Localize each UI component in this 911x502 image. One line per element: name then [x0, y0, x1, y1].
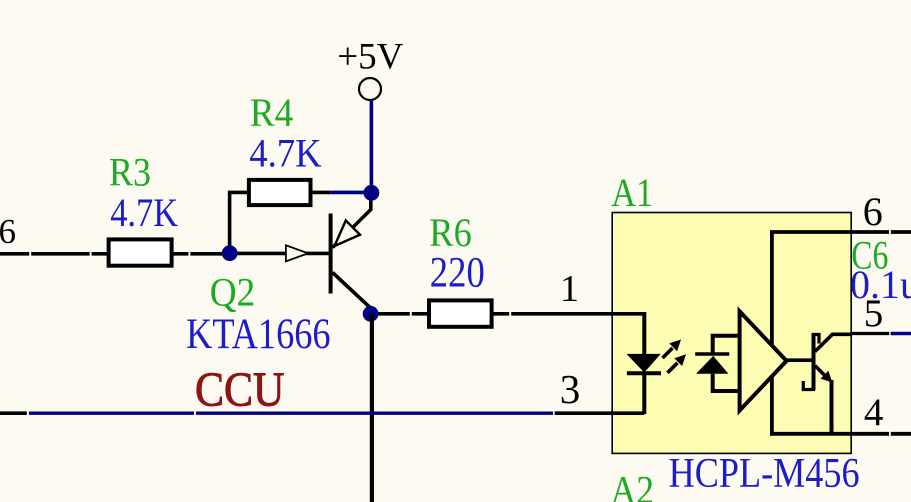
Vcc riser (pin 6) — [772, 232, 889, 345]
wire collector node down (crosses CCU wire) — [370, 314, 374, 502]
svg-text:R4: R4 — [250, 90, 293, 135]
base bar bottom hook — [803, 381, 813, 390]
svg-text:220: 220 — [430, 249, 485, 296]
svg-text:CCU: CCU — [195, 362, 285, 417]
emitter down to rail — [830, 380, 834, 434]
output transistor collector — [815, 334, 851, 351]
wire base of Q2 — [231, 252, 330, 256]
output transistor emitter with arrow — [815, 366, 826, 377]
photodiode bottom stub — [713, 374, 742, 391]
wire CCU left stub (black) — [0, 411, 27, 415]
svg-text:6: 6 — [0, 212, 16, 251]
light arrow 1 — [663, 348, 673, 358]
svg-text:1: 1 — [560, 268, 579, 310]
transistor Q2 base bar — [329, 214, 333, 294]
pin 5 wire (collector out) — [851, 332, 889, 335]
svg-text:A2: A2 — [611, 468, 655, 502]
LED cathode to pin3 — [642, 373, 646, 414]
amplifier triangle — [740, 311, 787, 410]
junction dot collector/R6 — [363, 306, 379, 322]
svg-text:4.7K: 4.7K — [249, 130, 322, 175]
svg-text:+5V: +5V — [337, 36, 403, 77]
junction dot R3/R4/base — [222, 245, 238, 261]
LED cathode bar — [627, 371, 661, 375]
svg-text:KTA1666: KTA1666 — [186, 311, 331, 358]
wire amp output to base bar — [787, 358, 813, 362]
svg-text:Q2: Q2 — [210, 270, 256, 315]
wire R6 to pin 1 — [492, 312, 510, 316]
pin 6 wire outside — [891, 230, 911, 234]
photodiode top stub — [713, 336, 742, 354]
wire CCU to pin 3 (black) — [555, 411, 645, 415]
photodiode cathode bar — [695, 352, 729, 356]
wire R4 right lead — [311, 191, 331, 195]
resistor R6 body — [429, 300, 492, 326]
svg-text:3: 3 — [560, 366, 581, 412]
light arrow 2 — [668, 363, 678, 373]
optocoupler U-A1 body box — [612, 213, 851, 454]
transistor Q2 collector — [333, 273, 371, 317]
svg-text:R3: R3 — [109, 150, 151, 195]
wire node up to R4 — [230, 192, 249, 253]
wire node to R6 — [378, 312, 410, 316]
power +5V circle — [359, 78, 381, 100]
wire +5V drop (navy) — [370, 100, 374, 193]
ground rail / pin 4 — [772, 376, 889, 433]
junction dot +5V/R4/emitter — [364, 185, 380, 201]
LED anode path (pin1 into box) — [642, 312, 646, 355]
svg-text:R6: R6 — [429, 210, 472, 255]
transistor Q2 emitter (to +5V) — [333, 194, 371, 248]
svg-text:A1: A1 — [611, 170, 653, 215]
wire CCU bus (navy) — [29, 412, 194, 415]
wire left input to R3 — [0, 252, 29, 256]
svg-text:6: 6 — [863, 189, 883, 234]
base bar top hook — [814, 335, 820, 344]
output transistor base bar — [812, 333, 816, 390]
svg-text:4.7K: 4.7K — [110, 190, 178, 235]
transistor Q2 emitter arrow (open, PNP) — [335, 221, 361, 247]
resistor R3 body — [109, 239, 172, 265]
svg-text:4: 4 — [864, 391, 884, 434]
photodiode triangle (pointing up) — [696, 356, 728, 374]
pin 5 wire navy — [891, 332, 911, 335]
LED triangle — [628, 354, 660, 371]
resistor R4 body — [249, 180, 311, 205]
input flow arrow on base wire — [286, 245, 308, 261]
wire R4 to +5V node (navy) — [330, 191, 366, 195]
svg-text:0.1uF: 0.1uF — [850, 262, 911, 307]
svg-text:HCPL-M456: HCPL-M456 — [669, 451, 860, 497]
wire R3 to node — [172, 252, 189, 256]
